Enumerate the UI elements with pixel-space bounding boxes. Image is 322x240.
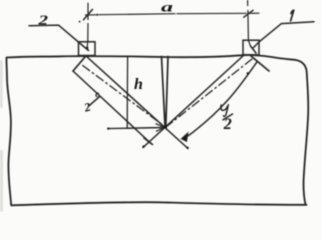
dimension line a <box>86 13 260 15</box>
probe 1 square <box>243 40 259 55</box>
svg-text:h: h <box>134 76 143 93</box>
test block outline <box>6 55 308 205</box>
leader for label 2 <box>29 25 89 50</box>
left beam face tick <box>73 56 86 71</box>
right beam lower edge <box>185 62 258 139</box>
probe 2 square <box>79 42 96 56</box>
dimension tick left <box>84 9 93 19</box>
extension line end dot in probe 2 <box>86 47 89 50</box>
left beam upper edge <box>86 56 188 149</box>
arrowhead at vertex <box>156 124 165 131</box>
dimension tick right <box>244 10 253 17</box>
left beam lower edge end segment <box>144 138 153 145</box>
left beam lower edge <box>73 71 151 144</box>
svg-text:2: 2 <box>82 100 92 115</box>
extension line left (x=88) <box>86 3 89 47</box>
label ch/2 on right beam <box>223 116 232 133</box>
scan smudge left margin <box>0 60 3 212</box>
right beam arrowhead <box>182 133 188 141</box>
defect crack lines <box>162 57 169 127</box>
extension line right (x=248) <box>248 1 251 47</box>
svg-text:a: a <box>161 0 173 15</box>
right beam face tick <box>251 56 269 71</box>
right beam upper edge <box>143 55 244 148</box>
label 1 <box>291 10 294 21</box>
label s/2 on left beam <box>82 89 100 115</box>
right beam centerline <box>166 59 252 127</box>
h depth horizontal line with arrow <box>108 128 165 129</box>
vertex node <box>164 126 167 129</box>
left beam centerline <box>83 66 166 128</box>
h depth vertical line <box>126 57 128 128</box>
leader for label 1 <box>251 22 315 53</box>
